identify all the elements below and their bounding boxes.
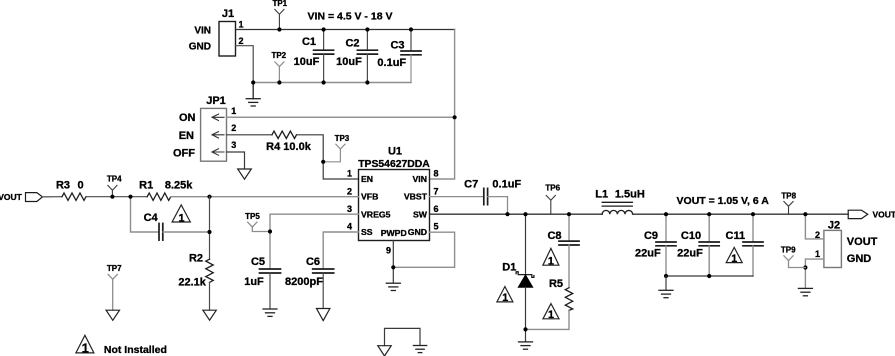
svg-text:1: 1 xyxy=(548,256,554,268)
node junction C7/SW xyxy=(505,212,509,216)
svg-text:GND: GND xyxy=(189,41,211,52)
svg-text:VOUT: VOUT xyxy=(847,236,878,248)
svg-text:7: 7 xyxy=(434,186,439,196)
wire D1 bottom to ground xyxy=(525,329,527,341)
capacitor C6 xyxy=(285,256,334,288)
capacitor C5 xyxy=(244,256,280,288)
test point TP9 xyxy=(781,245,806,267)
node junction C9 bottom xyxy=(664,274,668,278)
svg-text:EN: EN xyxy=(179,130,194,142)
svg-text:VIN: VIN xyxy=(413,174,427,184)
svg-text:L1: L1 xyxy=(595,189,608,201)
svg-text:TP3: TP3 xyxy=(335,134,350,143)
wire R5 to D1 bottom xyxy=(526,310,570,329)
wire J2 pin1 to ground xyxy=(805,259,824,288)
svg-text:C3: C3 xyxy=(390,39,404,51)
ground earth under C5 xyxy=(263,309,277,316)
svg-text:VBST: VBST xyxy=(404,192,428,202)
resistor R5 xyxy=(549,278,573,311)
node junction J2 branch xyxy=(803,212,807,216)
wire ON to VIN rail xyxy=(227,116,455,118)
test point TP1 xyxy=(272,0,287,30)
wire PWPD pin 9 down xyxy=(392,241,394,283)
svg-text:C8: C8 xyxy=(547,230,561,242)
svg-text:8200pF: 8200pF xyxy=(285,276,323,288)
ground earth under D1 xyxy=(519,342,533,349)
svg-text:3: 3 xyxy=(347,204,352,214)
svg-text:D1: D1 xyxy=(502,262,516,274)
test point TP6 xyxy=(545,184,560,215)
svg-text:22uF: 22uF xyxy=(677,247,703,259)
node junction TP2/rail xyxy=(277,80,281,84)
wire C5 to ground xyxy=(269,273,271,309)
ground triangle bottom tie xyxy=(378,346,391,356)
connector JP1 xyxy=(173,95,227,161)
svg-text:10uF: 10uF xyxy=(294,56,320,68)
wire SW rail xyxy=(430,213,603,215)
svg-text:R2: R2 xyxy=(189,252,203,264)
wire C8 to R5 xyxy=(568,245,570,288)
svg-text:0.1uF: 0.1uF xyxy=(492,178,521,190)
svg-text:C6: C6 xyxy=(306,256,320,268)
capacitor C9 xyxy=(635,214,676,276)
node junction D1/SW xyxy=(523,212,527,216)
test point TP8 xyxy=(781,191,796,214)
svg-text:VIN = 4.5 V - 18 V: VIN = 4.5 V - 18 V xyxy=(308,10,393,22)
svg-text:VOUT: VOUT xyxy=(0,192,23,202)
wire C9 tie to ground xyxy=(665,276,667,290)
JP1 pin 3 arrow xyxy=(212,149,224,155)
connector J2 xyxy=(824,220,878,268)
wire R2 to ground xyxy=(209,282,211,310)
JP1 pin 2 arrow xyxy=(212,132,224,138)
svg-text:1: 1 xyxy=(815,249,820,259)
svg-text:Not Installed: Not Installed xyxy=(104,344,167,356)
marker not-installed R5 xyxy=(543,304,559,322)
capacitor C1 xyxy=(294,30,334,83)
node junction TP1/rail xyxy=(277,27,281,31)
ground earth under J1 xyxy=(246,83,260,107)
svg-text:R5: R5 xyxy=(549,278,563,290)
wire R3 to R1 xyxy=(86,196,147,198)
connector J1 xyxy=(189,8,236,56)
svg-text:SW: SW xyxy=(413,209,428,219)
net tag VOUT right xyxy=(848,210,895,220)
svg-text:1: 1 xyxy=(548,309,554,321)
node junction TP9/J2 xyxy=(803,265,807,269)
svg-text:9: 9 xyxy=(386,246,391,256)
svg-text:1.5uH: 1.5uH xyxy=(615,189,645,201)
node junction C2 bottom xyxy=(365,80,369,84)
op-amp U1 TPS54627DDA body xyxy=(358,145,430,240)
svg-text:C11: C11 xyxy=(726,230,746,242)
wire VREG5 to C5 xyxy=(270,214,359,269)
test point TP2 xyxy=(271,51,286,83)
svg-text:GND: GND xyxy=(408,227,427,237)
svg-text:6: 6 xyxy=(434,204,439,214)
node junction C11/VOUT xyxy=(751,212,755,216)
node junction C8/SW xyxy=(567,212,571,216)
wire EN to R4 xyxy=(227,134,273,136)
svg-text:C5: C5 xyxy=(251,256,265,268)
capacitor C4 xyxy=(144,212,163,240)
svg-text:TP8: TP8 xyxy=(781,191,796,200)
capacitor C11 xyxy=(726,214,763,276)
node junction R1/R2 xyxy=(207,195,211,199)
svg-text:10uF: 10uF xyxy=(336,56,362,68)
svg-text:1: 1 xyxy=(178,212,184,224)
node junction C3 top xyxy=(409,27,413,31)
wire C4 to R2 node xyxy=(163,231,210,233)
svg-text:2: 2 xyxy=(347,186,352,196)
wire L1 to VOUT tag xyxy=(633,213,849,215)
svg-text:1: 1 xyxy=(231,106,236,116)
wire GND pin 5 route xyxy=(393,232,454,267)
svg-text:J1: J1 xyxy=(222,8,234,20)
svg-text:VOUT: VOUT xyxy=(873,210,895,220)
svg-text:2: 2 xyxy=(231,123,236,133)
svg-text:C1: C1 xyxy=(302,36,316,48)
svg-text:5: 5 xyxy=(434,222,439,232)
node junction TP4 xyxy=(110,195,114,199)
svg-text:TP2: TP2 xyxy=(271,51,286,60)
resistor R1 xyxy=(139,179,193,200)
svg-text:3: 3 xyxy=(231,140,236,150)
capacitor C10 xyxy=(677,214,719,276)
legend marker triangle 1 xyxy=(76,335,94,355)
ground triangle R2 xyxy=(203,310,216,320)
ground triangle C6 xyxy=(317,309,330,321)
svg-text:VFB: VFB xyxy=(361,192,378,202)
capacitor C2 xyxy=(336,30,377,83)
svg-text:TP6: TP6 xyxy=(545,184,560,193)
marker not-installed D1 xyxy=(497,287,513,305)
node junction J1gnd/rail xyxy=(251,80,255,84)
wire VIN rail drop to U1 xyxy=(430,30,455,180)
svg-text:PWPD: PWPD xyxy=(381,228,407,238)
svg-text:1: 1 xyxy=(347,169,352,179)
marker not-installed C4 xyxy=(172,205,190,224)
net tag VOUT left xyxy=(0,192,43,202)
svg-text:VIN: VIN xyxy=(194,25,211,36)
node junction C2 top xyxy=(365,27,369,31)
wire OFF stub xyxy=(227,152,245,169)
marker not-installed C8 xyxy=(543,248,559,267)
diode D1 xyxy=(502,214,534,329)
svg-text:TP9: TP9 xyxy=(781,245,796,254)
test point TP3 xyxy=(323,134,350,162)
capacitor C8 xyxy=(547,214,579,245)
wire R4 to EN pin xyxy=(297,135,359,179)
svg-text:4: 4 xyxy=(347,222,352,232)
node junction C9/VOUT xyxy=(664,212,668,216)
wire J1 pin2 to ground rail xyxy=(236,46,254,83)
test point TP4 xyxy=(107,174,122,196)
wire J2 pin2 to VOUT rail xyxy=(805,214,824,239)
svg-text:0.1uF: 0.1uF xyxy=(377,57,406,69)
svg-text:GND: GND xyxy=(847,253,872,265)
resistor R2 xyxy=(178,252,213,288)
ground earth under U1 xyxy=(386,283,400,290)
svg-text:VREG5: VREG5 xyxy=(361,209,391,219)
svg-text:ON: ON xyxy=(179,112,196,124)
wire output cap bottom tie xyxy=(666,275,753,277)
wire VIN top rail xyxy=(236,29,455,31)
capacitor C3 xyxy=(377,30,421,83)
svg-text:R1: R1 xyxy=(139,179,153,191)
svg-text:SS: SS xyxy=(361,227,373,237)
test point TP7 xyxy=(107,264,122,310)
svg-text:1: 1 xyxy=(731,253,737,265)
wire C4 branch left leg xyxy=(131,197,159,232)
ground triangle OFF xyxy=(238,169,252,179)
wire C6 to ground xyxy=(322,273,324,308)
ground earth under J2 xyxy=(798,288,812,295)
svg-text:C9: C9 xyxy=(644,230,658,242)
svg-text:EN: EN xyxy=(361,174,373,184)
svg-text:TP1: TP1 xyxy=(272,0,287,8)
svg-text:22.1k: 22.1k xyxy=(178,276,206,288)
JP1 pin 1 arrow xyxy=(212,114,224,120)
ground earth bottom tie xyxy=(413,346,426,353)
marker not-installed C11 xyxy=(726,247,742,265)
wire SS to C6 xyxy=(323,232,358,269)
svg-text:C2: C2 xyxy=(345,37,359,49)
node junction C1 bottom xyxy=(322,80,326,84)
node junction D1/R5 bottom xyxy=(523,327,527,331)
node junction ON rail xyxy=(453,115,457,119)
node junction C10 bottom xyxy=(707,274,711,278)
node junction TP3/EN xyxy=(321,160,325,164)
node junction C1 top xyxy=(322,27,326,31)
node junction C4/R2 xyxy=(207,230,211,234)
svg-text:U1: U1 xyxy=(388,145,402,157)
capacitor C7 xyxy=(464,178,521,204)
resistor R4 xyxy=(266,131,312,153)
test point TP5 xyxy=(245,212,270,232)
svg-text:C10: C10 xyxy=(681,230,701,242)
wire input bottom rail xyxy=(253,82,411,84)
svg-text:TP4: TP4 xyxy=(107,174,122,183)
svg-text:TPS54627DDA: TPS54627DDA xyxy=(358,159,430,170)
svg-text:1: 1 xyxy=(502,292,508,304)
svg-text:OFF: OFF xyxy=(173,147,195,159)
wire R2 node vertical xyxy=(209,197,211,260)
svg-text:VOUT = 1.05 V, 6 A: VOUT = 1.05 V, 6 A xyxy=(677,195,770,207)
svg-text:1: 1 xyxy=(82,340,89,355)
svg-text:J2: J2 xyxy=(828,220,840,232)
wire C7 to SW xyxy=(488,197,508,215)
svg-text:8: 8 xyxy=(434,169,439,179)
wire VBST to C7 xyxy=(430,196,484,198)
node junction C4 branch xyxy=(128,195,132,199)
svg-text:R4 10.0k: R4 10.0k xyxy=(266,141,312,153)
node junction TP5/C5 xyxy=(268,229,272,233)
ground earth under C9 xyxy=(659,290,673,297)
svg-text:1uF: 1uF xyxy=(244,276,264,288)
ground triangle TP7 xyxy=(106,310,119,320)
svg-text:0: 0 xyxy=(77,179,83,191)
wire tag to R3 xyxy=(43,196,63,198)
resistor R3 xyxy=(56,179,86,200)
svg-text:TP5: TP5 xyxy=(245,212,260,221)
svg-text:C7: C7 xyxy=(464,178,478,190)
node junction pin9/GND xyxy=(391,265,395,269)
svg-text:8.25k: 8.25k xyxy=(165,179,193,191)
inductor L1 xyxy=(595,189,645,215)
svg-text:R3: R3 xyxy=(56,179,70,191)
bottom tie wire triangle-earth xyxy=(385,328,421,345)
svg-text:1: 1 xyxy=(239,20,244,30)
svg-text:JP1: JP1 xyxy=(206,95,226,107)
node junction C10/VOUT xyxy=(707,212,711,216)
svg-text:2: 2 xyxy=(239,36,244,46)
svg-text:22uF: 22uF xyxy=(635,247,661,259)
svg-text:C4: C4 xyxy=(144,212,159,224)
wire R1 to VFB pin xyxy=(171,196,359,198)
svg-text:TP7: TP7 xyxy=(107,264,122,273)
